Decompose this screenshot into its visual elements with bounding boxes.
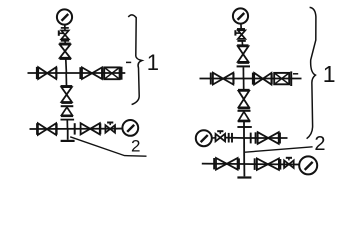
- wire: cock to master valve (right tree): [241, 41, 243, 45]
- pressure gauge G1 (left tree, top): [57, 9, 72, 24]
- tubing head lower flange (left tree): [61, 119, 75, 121]
- flange branch2 right (right tree): [254, 158, 256, 170]
- pressure gauge G5 (right tree, branch2): [299, 156, 317, 174]
- gauge cock K4 (right tree): [216, 134, 221, 142]
- master gate valve V7 (right tree): [238, 46, 249, 54]
- flange pair branch1 left (right tree): [228, 133, 230, 143]
- gauge cock K2 (left tree): [105, 125, 110, 133]
- choke (rect with X, right tree): [274, 73, 289, 84]
- gauge cock bottom flange (right tree): [237, 40, 245, 42]
- brace for label 1 (right tree): [307, 7, 316, 138]
- tick at brace cusp (right tree): [293, 73, 298, 75]
- flange between V3 and choke (left tree): [101, 67, 103, 79]
- lower wing valve V6 (left tree): [81, 123, 91, 134]
- master gate valve V1 bottom flange (left tree): [60, 58, 72, 60]
- wire: V1 to cross (left tree): [65, 60, 68, 74]
- wing gate valve V8 (right tree): [213, 73, 223, 85]
- wire: cock K2 to gauge G2 (left tree): [115, 128, 122, 130]
- lower gate valve V4 (left tree): [61, 87, 71, 94]
- master gate valve V7 top flange (right tree): [237, 44, 248, 46]
- wire: branch2 horizontal right (right tree): [244, 163, 299, 166]
- flange branch1 right inner (right tree): [250, 133, 252, 144]
- wire: gauge G4 to cock K4 (right tree): [212, 137, 216, 139]
- flange after V13 (right tree): [279, 159, 281, 170]
- flange (right wing, left tree): [79, 67, 81, 79]
- flange after choke (right tree): [290, 71, 292, 86]
- flange after V12 (right tree): [238, 158, 240, 169]
- flange after V6 (left tree): [99, 123, 101, 134]
- tubing head adapter triangle (left tree): [62, 107, 73, 115]
- wire: cross to lower valve (right tree): [243, 79, 245, 90]
- flange branch1 right (right tree): [255, 132, 257, 143]
- wing gate valve V9 (right tree): [254, 73, 263, 85]
- svg-text:2: 2: [314, 133, 325, 155]
- wire: branch2 to casing cap (right tree): [243, 164, 245, 176]
- pressure gauge G2 (left tree): [122, 120, 138, 136]
- brace for label 1 (left tree): [128, 15, 142, 105]
- flange after V11 (right tree): [279, 133, 281, 144]
- flange pair below V10 (right tree): [238, 110, 251, 112]
- branch2 wing valve V13 (right tree): [257, 159, 268, 170]
- wire: branch to casing cap (left tree): [67, 129, 69, 140]
- lower gate valve V4 top flange (left tree): [61, 85, 73, 87]
- tubing head lower flange (right tree): [237, 126, 251, 128]
- pressure gauge G4 (right tree, branch1): [196, 130, 212, 146]
- svg-text:1: 1: [147, 50, 159, 75]
- gauge connection tick (right tree): [237, 28, 245, 30]
- wire: branch2 horizontal left (right tree): [202, 163, 244, 165]
- flange pair below V4 (left tree): [61, 105, 74, 107]
- lower gate valve V10 bottom flange (right tree): [238, 107, 250, 109]
- flange (lower left, left tree): [36, 123, 38, 135]
- flange after choke (left tree): [121, 67, 123, 80]
- tubing head adapter base flange (left tree): [61, 115, 73, 117]
- flange branch2 left (right tree): [213, 158, 215, 169]
- gauge cock bottom flange (left tree): [61, 40, 69, 42]
- lower gate valve V4 bottom flange (left tree): [61, 102, 72, 104]
- wing gate valve V2 (left tree): [38, 67, 47, 79]
- wire: top branch horizontal (right tree): [200, 78, 302, 80]
- flange after V5 (left tree): [56, 123, 58, 134]
- wire: adapter to branch1 (right tree): [243, 122, 245, 138]
- casing head cap (left tree): [61, 140, 75, 142]
- flange after V2 (left tree): [55, 67, 57, 78]
- gauge cock K1 (left tree): [61, 31, 68, 35]
- tubing head adapter base flange (right tree): [238, 120, 250, 122]
- flange (right wing, right tree): [252, 73, 254, 85]
- flange (left wing, right tree): [210, 73, 212, 85]
- wire: adapter to lower branch (left tree): [66, 120, 68, 129]
- wire: branch1 to branch2 (right tree): [243, 138, 245, 164]
- branch2 wing valve V12 (right tree): [216, 158, 227, 170]
- tubing head adapter triangle (right tree): [239, 112, 250, 121]
- leader line to label 2 (right tree): [245, 147, 313, 152]
- svg-text:2: 2: [131, 137, 140, 156]
- lower gate valve V10 top flange (right tree): [238, 89, 250, 91]
- wire: cross to lower valve (left tree): [65, 73, 67, 86]
- leader line to label 2 (left tree): [70, 137, 146, 156]
- flange (lower right, left tree): [74, 123, 76, 134]
- master gate valve V7 bottom flange (right tree): [238, 62, 250, 64]
- flange between V9 and choke (right tree): [271, 73, 273, 84]
- gauge cock K3 (right tree): [238, 30, 245, 34]
- flange after V8 (right tree): [233, 73, 235, 84]
- lower gate valve V10 (right tree): [239, 91, 250, 99]
- svg-text:1: 1: [323, 61, 336, 87]
- master gate valve V1 top flange (left tree): [59, 43, 71, 45]
- wire: lower branch horizontal (left tree): [30, 128, 122, 130]
- gauge connection tick (left tree): [61, 27, 69, 29]
- wing gate valve V3 (left tree): [82, 67, 92, 79]
- flange pair below V7 (right tree): [237, 65, 250, 67]
- pressure gauge G3 (right tree, top): [233, 8, 248, 23]
- tick at brace cusp (left tree): [126, 61, 131, 63]
- master gate valve V1 (left tree): [60, 45, 70, 52]
- flange (left wing, left tree): [36, 67, 38, 79]
- wire: stem cock to master valve (left tree): [64, 41, 66, 44]
- wire: V7 to cross (right tree): [242, 67, 244, 78]
- wire: cock K4 to flange (right tree): [225, 137, 244, 139]
- wire: branch1 right (right tree): [244, 137, 288, 139]
- branch1 wing valve V11 (right tree): [258, 132, 269, 144]
- casing head cap (right tree): [237, 176, 251, 178]
- lower wing valve V5 (left tree): [38, 123, 47, 135]
- gauge cock K5 (right tree): [284, 160, 289, 168]
- wire: top branch horizontal (left tree): [28, 72, 126, 74]
- choke (rect with X, left tree): [104, 67, 119, 79]
